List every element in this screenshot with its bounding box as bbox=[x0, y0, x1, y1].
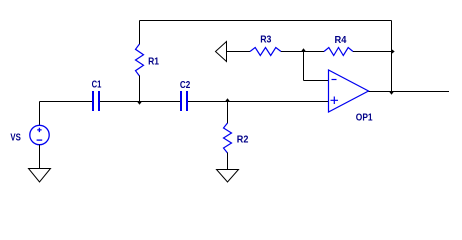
wire C1 to C2 bbox=[100, 101, 180, 103]
resistor R2 bbox=[224, 123, 232, 153]
wire VS top lead bbox=[39, 102, 41, 126]
capacitor C2 bbox=[181, 91, 187, 111]
wire C2 to op-amp noninverting input bbox=[188, 101, 329, 103]
svg-text:VS: VS bbox=[10, 133, 21, 144]
wire R1 top lead bbox=[139, 21, 141, 45]
ground left-pointing at R3 bbox=[216, 42, 227, 62]
resistor R4 bbox=[324, 48, 353, 56]
wire VS bottom lead bbox=[39, 145, 41, 169]
junction node R4 right bbox=[392, 49, 395, 54]
wire R4 to feedback vertical bbox=[353, 51, 392, 53]
resistor R1 bbox=[136, 44, 144, 76]
wire input left bbox=[40, 101, 93, 103]
wire R3 to R4 bbox=[281, 51, 324, 53]
capacitor C1 bbox=[93, 91, 99, 111]
wire R1 bottom lead bbox=[139, 76, 141, 102]
ground below VS bbox=[29, 169, 51, 183]
svg-text:R1: R1 bbox=[148, 57, 159, 68]
junction node at R1 bottom bbox=[137, 102, 142, 105]
op-amp OP1 bbox=[329, 70, 369, 112]
wire inverting horizontal to op-amp bbox=[304, 80, 329, 82]
source VS bbox=[30, 125, 49, 144]
svg-text:R3: R3 bbox=[260, 35, 272, 46]
junction node at R2 top bbox=[225, 98, 230, 101]
svg-text:C1: C1 bbox=[92, 80, 102, 91]
resistor R3 bbox=[250, 48, 281, 56]
wire R2 top lead bbox=[227, 102, 229, 124]
wire top feedback bbox=[140, 20, 392, 22]
wire ground to R3 bbox=[227, 51, 251, 53]
wire R2 bottom lead bbox=[227, 153, 229, 170]
svg-text:C2: C2 bbox=[180, 80, 191, 91]
svg-text:R4: R4 bbox=[335, 35, 347, 46]
ground below R2 bbox=[217, 170, 239, 183]
junction node output bbox=[389, 92, 394, 95]
wire feedback vertical right bbox=[391, 21, 393, 92]
junction node inverting branch bbox=[301, 48, 306, 51]
wire output bbox=[369, 91, 450, 93]
svg-text:R2: R2 bbox=[237, 134, 249, 145]
wire inverting vertical bbox=[303, 52, 305, 81]
svg-text:OP1: OP1 bbox=[356, 113, 373, 124]
